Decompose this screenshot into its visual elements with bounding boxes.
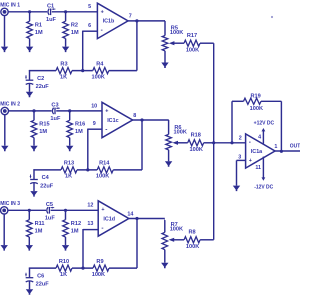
svg-text:R13: R13 [64,161,74,167]
ground jack 2 [1,146,8,152]
op-amp IC1b [97,3,128,38]
svg-text:+: + [101,9,104,15]
wire output IC1b [128,20,165,22]
svg-text:9: 9 [93,121,96,127]
label OUT [290,144,301,150]
wire pin 4 +12V [262,131,264,144]
svg-text:14: 14 [127,211,133,217]
wiper arrow R5 [169,41,184,45]
svg-text:+: + [249,158,252,164]
wire output [275,150,300,152]
capacitor C5 1uF [46,207,54,214]
label R18 value 100K [190,147,203,153]
node R19 left junction [230,141,233,144]
label R16 value 1M [75,129,83,135]
label R6 value 100K [174,130,187,136]
pin 14 label [127,211,133,217]
resistor R19 100K [244,98,262,104]
svg-text:1M: 1M [75,129,83,135]
wire R19 left leg [232,101,244,143]
svg-text:22uF: 22uF [36,84,50,90]
pin 8 label [133,113,136,119]
ground R16 [66,146,73,152]
label R8 value 100K [186,244,199,250]
pin 7 label [129,14,132,20]
node bus/R18 junction [212,141,215,144]
ground C2 [26,92,33,98]
label R8 [189,230,196,236]
label C2 [37,76,44,82]
svg-text:100K: 100K [170,30,183,36]
ground R15 [30,146,37,152]
label R19 value 100K [250,106,263,112]
label C2 value 22uF [36,84,50,90]
label C4 [42,175,50,181]
node output junction IC1b [135,19,138,22]
label C4 value 22uF [40,184,54,190]
label R13 value 1K [65,174,72,180]
wiper arrow R7 [169,238,185,242]
wire feedback R9 [109,219,137,269]
label R14 [99,161,110,167]
svg-text:R18: R18 [191,133,201,139]
node junction R15 [32,109,35,112]
wire R13 to junction [77,169,97,171]
label R19 [250,93,260,99]
op-amp IC1c [102,102,133,137]
label C6 [37,273,44,279]
resistor R14 [97,167,113,173]
svg-text:R12: R12 [71,221,81,227]
svg-text:12: 12 [87,203,93,209]
svg-text:1uF: 1uF [45,216,56,222]
label R2 [71,23,78,29]
label C5 value 1uF [45,216,56,222]
wire R10 to C6 [29,268,56,278]
label R9 value 100K [92,272,105,278]
capacitor C6 22uF [25,273,33,282]
svg-text:MIC IN 2: MIC IN 2 [0,102,20,108]
svg-text:100K: 100K [96,174,109,180]
stray speck [271,16,273,18]
svg-text:R1: R1 [35,23,42,29]
pin 13 label [87,221,93,227]
wire output to pot R7 [163,220,166,232]
label R6 [174,125,181,131]
svg-text:R16: R16 [75,122,85,128]
label C3 [51,103,58,109]
wire input row channel 2 [9,110,103,112]
svg-text:+12V DC: +12V DC [254,120,275,126]
svg-text:100K: 100K [92,74,105,80]
wire C4 to ground [33,183,35,191]
svg-text:OUT: OUT [290,144,300,150]
svg-text:6: 6 [88,23,91,29]
svg-text:1M: 1M [71,30,79,36]
resistor R1 1M [27,12,33,47]
label R17 [187,33,197,39]
svg-text:C1: C1 [47,4,54,10]
resistor R8 100K [184,237,200,243]
label R12 value 1M [71,229,79,235]
op-amp IC1d [98,201,129,236]
label R15 [39,122,49,128]
svg-text:-: - [249,139,251,146]
svg-text:MIC IN 3: MIC IN 3 [0,201,20,207]
ground jack 3 [1,245,8,251]
label R10 value 1K [60,272,67,278]
label C1 [47,4,54,10]
ground C4 [30,191,37,197]
svg-text:7: 7 [129,14,132,20]
wire output to pot R5 [163,21,166,36]
label R5 value 100K [170,30,183,36]
ground R2 [62,47,69,53]
label +12V DC [254,120,275,126]
label MIC IN 1 [0,3,20,9]
node junction R3/R4 [81,69,84,72]
node junction R1 [28,10,31,13]
svg-text:100K: 100K [174,130,187,136]
wire inverting input IC1d [83,229,98,268]
label R1 value 1M [35,30,43,36]
svg-text:1M: 1M [39,129,47,135]
label R7 value 100K [170,227,183,233]
resistor R16 1M [67,111,73,146]
node junction R13/R14 [86,168,89,171]
svg-text:1K: 1K [60,272,67,278]
svg-text:11: 11 [255,165,261,171]
pin 1 label [274,144,277,150]
MIC IN 1 input jack J1 [1,8,8,15]
svg-text:1M: 1M [35,30,43,36]
svg-text:13: 13 [87,221,93,227]
svg-text:1M: 1M [71,229,79,235]
svg-text:IC1c: IC1c [107,118,118,124]
svg-text:R9: R9 [96,259,103,265]
label R11 value 1M [35,229,43,235]
wire input row channel 1 [8,11,97,13]
capacitor C2 22uF [25,75,33,84]
svg-text:8: 8 [133,113,136,119]
pin 3 label [238,154,241,160]
label -12V DC [254,184,273,190]
wire R13 to C4 [33,169,61,179]
label R15 value 1M [39,129,47,135]
wire bus to IC1a pin 2 [214,142,246,144]
svg-text:R14: R14 [99,161,110,167]
label R3 [60,61,67,67]
wire C2 to ground [29,84,31,92]
svg-text:3: 3 [238,154,241,160]
wire C6 to ground [29,281,31,289]
label MIC IN 2 [0,102,20,108]
pin 4 label [258,135,261,141]
svg-text:100K: 100K [92,272,105,278]
svg-text:R3: R3 [60,61,67,67]
ground R1 [26,47,33,53]
svg-text:IC1b: IC1b [103,19,115,25]
svg-text:1uF: 1uF [46,17,57,23]
svg-text:1K: 1K [60,74,67,80]
label R5 [171,25,178,31]
svg-text:R4: R4 [96,61,104,67]
pin 11 label [255,165,261,171]
label R4 value 100K [92,74,105,80]
ground C6 [26,289,33,295]
svg-text:1: 1 [274,144,277,150]
wire R3 to C2 [29,70,56,80]
svg-text:R8: R8 [189,230,196,236]
op-amp IC1a [246,134,275,168]
svg-text:100K: 100K [170,227,183,233]
svg-text:-: - [101,225,103,232]
svg-text:C3: C3 [51,103,58,109]
label R3 value 1K [60,74,67,80]
potentiometer R7 100K [162,232,168,262]
node output junction IC1d [135,217,138,220]
ground R5 [161,63,168,69]
label R2 value 1M [71,30,79,36]
svg-text:R19: R19 [250,93,260,99]
svg-text:+: + [105,108,108,114]
node junction R11 [28,209,31,212]
svg-text:C4: C4 [42,175,50,181]
label R10 [59,259,69,265]
ground IC1a pin 3 [233,186,240,192]
svg-text:R2: R2 [71,23,78,29]
resistor R18 100K [188,140,204,146]
wire input row channel 3 [8,209,98,211]
label R1 [35,23,42,29]
pin 6 label [88,23,91,29]
wire R19 right leg [261,101,281,151]
resistor R15 1M [31,111,37,146]
wire output to pot R6 [167,120,170,134]
wire pin 11 -12V [262,157,264,178]
svg-text:C6: C6 [37,273,44,279]
ground R7 [161,263,168,269]
label MIC IN 3 [0,201,20,207]
svg-text:-: - [105,126,107,133]
resistor R10 1K [56,265,72,271]
svg-text:5: 5 [88,4,91,10]
MIC IN 3 input jack J3 [0,207,7,214]
svg-text:IC1d: IC1d [103,216,115,222]
node junction R16 [68,109,71,112]
label R11 [35,221,45,227]
resistor R4 [93,68,109,74]
ground R11 [26,245,33,251]
svg-text:4: 4 [258,135,261,141]
ground R6 [165,161,172,167]
MIC IN 2 input jack J2 [1,107,8,114]
wire output IC1d [128,218,165,220]
svg-text:C5: C5 [46,202,53,208]
resistor R3 1K [56,68,72,74]
svg-text:1M: 1M [35,229,43,235]
wire mix bus [200,43,214,240]
wire output IC1c [133,119,169,121]
label R12 [71,221,81,227]
wire feedback R14 [113,120,142,170]
node junction R12 [64,209,67,212]
pin 2 label [239,135,242,141]
label R13 [64,161,74,167]
capacitor C1 1uF [47,8,55,15]
svg-text:10: 10 [91,103,97,109]
wire feedback R4 [109,21,137,71]
label C1 value 1uF [46,17,57,23]
svg-text:22uF: 22uF [36,282,50,288]
label C5 [46,202,53,208]
svg-text:IC1a: IC1a [251,149,263,155]
svg-text:1K: 1K [65,174,72,180]
wire R3 to junction [72,70,93,72]
node junction R10/R9 [81,267,84,270]
svg-text:R10: R10 [59,259,69,265]
svg-text:22uF: 22uF [40,184,54,190]
svg-text:100K: 100K [250,106,263,112]
wiper arrow R6 [172,141,187,145]
svg-text:-12V DC: -12V DC [254,184,273,190]
potentiometer R6 100K [166,134,172,161]
ground jack 1 [1,47,8,53]
wire jack 3 to ground [3,214,5,245]
svg-text:-: - [101,27,103,34]
node output junction IC1c [140,118,143,121]
svg-text:100K: 100K [186,47,199,53]
label R18 [191,133,201,139]
wire IC1a pin 3 [237,160,246,185]
label R17 value 100K [186,47,199,53]
wire jack 2 to ground [4,115,6,146]
pin 9 label [93,121,96,127]
svg-text:C2: C2 [37,76,44,82]
svg-text:1uF: 1uF [50,116,61,122]
label C6 value 22uF [36,282,50,288]
wire R10 to junction [72,267,93,269]
resistor R11 1M [27,210,33,245]
svg-text:100K: 100K [186,244,199,250]
-12V DC power arrow [262,177,266,180]
node junction R2 [64,10,67,13]
potentiometer R5 100K [162,36,168,63]
pin 5 label [88,4,91,10]
ground R12 [62,245,69,251]
resistor R12 1M [63,210,69,245]
label R14 value 100K [96,174,109,180]
svg-text:100K: 100K [190,147,203,153]
label R7 [171,222,178,228]
pin 10 label [91,103,97,109]
svg-text:MIC IN 1: MIC IN 1 [0,3,20,9]
label R4 [96,61,104,67]
svg-text:R11: R11 [35,221,45,227]
label C3 value 1uF [50,116,61,122]
resistor R17 100K [184,40,200,46]
pin 12 label [87,203,93,209]
svg-text:R17: R17 [187,33,197,39]
label R16 [75,122,85,128]
resistor R13 1K [61,167,77,173]
wire inverting input IC1c [88,129,102,170]
resistor R2 1M [63,12,69,47]
label R9 [96,259,103,265]
svg-text:R15: R15 [39,122,49,128]
node output junction IC1a [280,150,283,153]
wire jack 1 to ground [4,16,6,47]
capacitor C3 1uF [52,107,60,114]
svg-text:2: 2 [239,135,242,141]
capacitor C4 22uF [30,175,38,184]
svg-text:+: + [101,207,104,213]
+12V DC power arrow [262,128,266,131]
resistor R9 [93,265,109,271]
wire inverting input IC1b [83,31,98,71]
